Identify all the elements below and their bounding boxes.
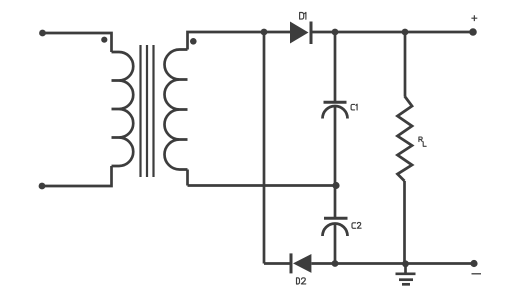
primary phase dot [101, 37, 107, 43]
label C2 [352, 222, 361, 228]
transformer T1 secondary winding [165, 50, 188, 170]
wire bottom rail [264, 262, 474, 265]
label + [471, 15, 477, 21]
label D1 [300, 12, 306, 19]
wire secondary bottom lead [186, 170, 189, 186]
capacitor C1 [334, 32, 337, 101]
node top-left input terminal [39, 30, 46, 37]
wire secondary top lead to top rail [188, 32, 291, 50]
diode D2 [293, 254, 311, 273]
diode D1 [290, 22, 309, 44]
node - output terminal [470, 260, 477, 267]
D1 cathode bar [310, 22, 313, 45]
node bottom-left input terminal [39, 183, 46, 190]
node RL bottom / ground junction [402, 260, 409, 267]
node + output terminal [469, 28, 477, 36]
node RL top junction [402, 29, 409, 36]
node junction top of vertical link [261, 29, 268, 36]
transformer T1 primary winding [112, 52, 134, 166]
wire primary top lead [43, 33, 112, 52]
D2 cathode bar [290, 253, 293, 273]
capacitor C2 [334, 186, 337, 218]
node C1 top junction [332, 29, 339, 36]
resistor RL [404, 32, 407, 96]
node C1/C2 midpoint junction [332, 182, 339, 189]
transformer core [141, 45, 154, 177]
label RL [419, 137, 426, 146]
wire top rail [313, 31, 474, 34]
wire middle rail [188, 184, 337, 187]
wire primary bottom lead [42, 166, 112, 186]
wire vertical link from top rail to bottom rail [263, 32, 266, 264]
ground [396, 264, 416, 285]
secondary phase dot [190, 38, 197, 45]
label - [472, 273, 482, 275]
label D2 [297, 278, 306, 284]
node C2 bottom junction [332, 260, 339, 267]
label C1 [351, 104, 357, 110]
